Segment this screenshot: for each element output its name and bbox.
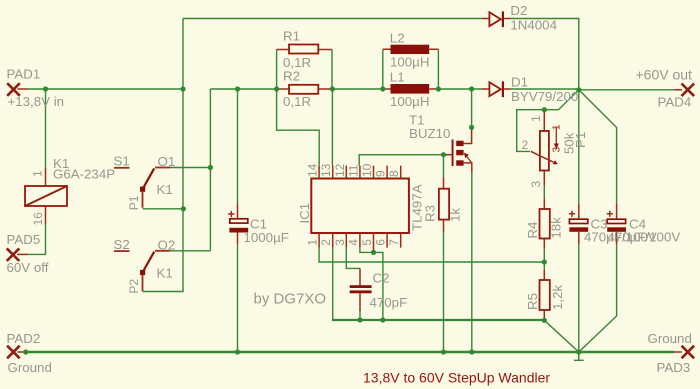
svg-text:4: 4 (346, 239, 360, 246)
wire R1 parallel branch risers (277, 50, 332, 90)
svg-text:S1: S1 (114, 154, 130, 169)
resistor R3 body (439, 189, 449, 220)
IC1 top pin stubs 14-8 (319, 166, 401, 179)
wire IC1 pins 4/5 tie down to ground line (360, 248, 383, 320)
wire T1 source to ground rail (471, 172, 473, 352)
resistor R5 body (540, 280, 550, 310)
switch S1 lever (143, 168, 155, 189)
pad PAD1 cross (7, 83, 20, 96)
potentiometer P1 body (540, 131, 549, 171)
node PAD2 ground rail junction (23, 349, 28, 354)
capacitor C3 bottom plate (569, 227, 588, 232)
node C2 bottom junction (357, 317, 362, 322)
diode D2 triangle (489, 12, 500, 26)
node C1 ground junction (235, 349, 240, 354)
svg-text:3: 3 (333, 239, 347, 246)
ground symbol (574, 352, 584, 360)
wire IC1 pin14 sense jog (277, 89, 320, 166)
wire feedback IC1 pin1 to R4/R5 node (319, 248, 544, 262)
node O1 contact junction (208, 165, 213, 170)
switch S1 pole pin P1 (142, 191, 144, 208)
node L1/L2 left junction (380, 86, 385, 91)
resistor R4 body (540, 209, 550, 239)
svg-text:PAD1: PAD1 (7, 67, 41, 82)
capacitor C1 plus sign (228, 211, 234, 217)
inductor L2 body (391, 45, 430, 54)
svg-text:12: 12 (333, 163, 347, 177)
pad PAD1 pin stub (18, 88, 28, 90)
pad PAD4 cross (682, 84, 695, 97)
wire C2 bottom (359, 309, 361, 320)
pad PAD5 pin stub (17, 253, 28, 255)
op-amp IC1 box TL497A (311, 179, 409, 234)
svg-text:2: 2 (319, 239, 333, 246)
svg-text:13,8V to 60V StepUp Wandler: 13,8V to 60V StepUp Wandler (363, 370, 550, 386)
node R3 ground junction (441, 349, 446, 354)
diode D1 triangle (489, 82, 500, 96)
svg-text:PAD4: PAD4 (658, 95, 692, 110)
svg-text:R5: R5 (525, 293, 540, 310)
diode D2 cathode bar (502, 11, 504, 27)
svg-text:R2: R2 (283, 69, 300, 84)
resistor R1 body (289, 45, 318, 54)
pad PAD5 cross (7, 248, 20, 261)
svg-text:10: 10 (360, 163, 374, 177)
wire IC1 pin13 supply drop (331, 89, 333, 166)
inductor L2 pins (383, 48, 439, 50)
wire vertical bus x=183 from top wire through +13,8V rail down to P2 (143, 19, 184, 292)
svg-text:C2: C2 (373, 271, 390, 286)
svg-text:PAD5: PAD5 (7, 232, 41, 247)
switch S1 NC stub (114, 167, 130, 169)
svg-text:1N4004: 1N4004 (510, 18, 557, 33)
svg-text:14: 14 (306, 163, 320, 177)
resistor R2 body (289, 85, 318, 94)
svg-text:+13,8V in: +13,8V in (8, 94, 65, 109)
relay K1 coil diagonal (25, 186, 67, 206)
svg-text:16: 16 (31, 212, 45, 226)
svg-text:0,1R: 0,1R (283, 94, 311, 109)
svg-text:60V off: 60V off (7, 260, 49, 275)
svg-text:470µF/100V: 470µF/100V (608, 230, 681, 245)
svg-text:100µH: 100µH (390, 55, 429, 70)
resistor R3 pins (443, 177, 445, 232)
svg-text:G6A-234P: G6A-234P (53, 167, 115, 182)
svg-text:1: 1 (31, 170, 45, 177)
svg-text:2: 2 (522, 138, 529, 152)
capacitor C4 top plate (607, 219, 625, 223)
capacitor C3 top plate (569, 219, 587, 223)
switch S2 lever (143, 252, 155, 273)
wire switched +13,8V rail y=89 (210, 88, 578, 90)
wire P1 pot top loop and wiper (517, 90, 579, 152)
svg-text:3: 3 (551, 147, 562, 153)
IC1 bottom pin stubs 1-7 (319, 233, 401, 252)
svg-text:P1: P1 (573, 132, 588, 148)
wire R4 bottom to feedback node to R5 top (543, 249, 545, 271)
svg-text:BYV79/200: BYV79/200 (511, 89, 578, 104)
switch S2 NO stub O2 (155, 250, 170, 252)
node P1 pot top junction (542, 107, 547, 112)
svg-text:S2: S2 (114, 237, 130, 252)
svg-text:O2: O2 (158, 238, 176, 253)
svg-text:IC1: IC1 (297, 203, 312, 224)
svg-text:K1: K1 (157, 182, 173, 197)
svg-text:100µH: 100µH (390, 94, 429, 109)
potentiometer P1 pins (543, 111, 545, 186)
transistor T1 channel bars (456, 141, 463, 146)
wire T1 drain riser (471, 89, 473, 127)
inductor L1 pins (383, 88, 439, 90)
wire gate net pin11 to T1 gate and R3 (359, 155, 445, 177)
svg-text:18k: 18k (549, 217, 564, 239)
svg-text:7: 7 (387, 239, 401, 246)
node gate/R3 junction (441, 152, 446, 157)
capacitor C3 pins (578, 204, 580, 244)
svg-text:1: 1 (529, 115, 543, 122)
wire O1 contact to x210 bus (170, 167, 210, 169)
svg-text:5: 5 (360, 239, 374, 246)
potentiometer P1 direction arrow (555, 127, 557, 145)
svg-text:470pF: 470pF (370, 295, 408, 310)
relay K1 coil body (25, 186, 67, 206)
diode D1 cathode bar (502, 81, 504, 97)
wire D2 cathode to +60V junction (511, 19, 579, 90)
node main ground junction (576, 349, 581, 354)
transistor T1 drain connection (463, 128, 471, 144)
capacitor C4 plus sign (607, 211, 613, 217)
node P1 pole junction (181, 206, 186, 211)
node IC1 pin4/5 junction (371, 250, 376, 255)
svg-text:6: 6 (374, 239, 388, 246)
node R5 bottom junction (542, 318, 547, 323)
svg-text:O1: O1 (158, 154, 176, 169)
wire relay coil top drop (45, 89, 47, 168)
transistor T1 source connection (463, 163, 471, 172)
svg-text:8: 8 (387, 170, 401, 177)
switch S2 pole pin P2 (142, 274, 144, 291)
switch S1 pivot (140, 187, 145, 192)
node C1 tap on switched rail (235, 86, 240, 91)
relay K1 coil pins (45, 168, 47, 224)
wire O2 contact to x210 bus (170, 250, 210, 252)
pad PAD3 pin stub (674, 351, 682, 353)
wire IC1 pin2 ground line to R5 bottom (332, 248, 334, 320)
pad PAD3 cross (682, 346, 695, 359)
svg-text:L2: L2 (390, 31, 405, 46)
capacitor C3 plus sign (569, 211, 575, 217)
node feedback R4/R5 junction (542, 259, 547, 264)
svg-text:1: 1 (306, 239, 320, 246)
wire R3 bottom to ground rail (443, 232, 445, 352)
svg-text:1000µF: 1000µF (244, 230, 289, 245)
svg-text:1k: 1k (448, 208, 463, 222)
wire R5 bottom diagonal to ground node (544, 320, 579, 352)
pad PAD2 cross (7, 346, 20, 359)
wire IC1 pin3 to C2 top (346, 248, 360, 269)
node R1/R2 left junction (274, 86, 279, 91)
wire C4 bottom diagonal to ground node (579, 244, 617, 352)
capacitor C2 plates (350, 285, 372, 288)
svg-text:R1: R1 (283, 29, 300, 44)
svg-text:3: 3 (529, 181, 543, 188)
wire top net from node at x183 to D2 anode (183, 18, 482, 20)
wire ground rail bottom (26, 351, 675, 354)
wire C4 diagonal top riser (579, 90, 617, 204)
switch S1 NO stub O1 (155, 167, 170, 169)
potentiometer P1 wiper arrow (531, 151, 554, 162)
capacitor C4 pins (616, 204, 618, 244)
switch S2 NC stub (114, 250, 130, 252)
svg-text:PAD3: PAD3 (657, 360, 691, 375)
svg-text:D2: D2 (510, 3, 527, 18)
node pin4/5 ground junction (380, 317, 385, 322)
svg-text:13: 13 (319, 163, 333, 177)
node L1/L2 right junction (436, 86, 441, 91)
node +13,8V rail / vertical bus junction (180, 86, 185, 91)
svg-text:by DG7XO: by DG7XO (254, 291, 327, 308)
transistor T1 gate bar (452, 140, 454, 167)
svg-text:Ground: Ground (8, 360, 52, 375)
wire C3 bottom to ground node (578, 244, 580, 352)
IC1 pin number labels (306, 163, 402, 245)
svg-text:L1: L1 (390, 70, 405, 85)
capacitor C4 bottom plate (607, 227, 626, 232)
resistor R1 pins (277, 49, 332, 51)
svg-text:P2: P2 (127, 279, 141, 294)
wire L2 parallel branch risers (383, 49, 439, 89)
svg-text:R4: R4 (525, 222, 540, 239)
resistor R5 pins (543, 270, 545, 320)
node T1 source ground junction (469, 349, 474, 354)
capacitor C1 top plate (230, 219, 248, 223)
node T1 drain wire junction (469, 125, 474, 130)
resistor R2 pins (277, 88, 332, 90)
svg-text:+60V out: +60V out (636, 67, 693, 83)
wire C1 bottom to ground rail (237, 244, 239, 352)
node relay coil tap on +13,8V rail (43, 86, 48, 91)
node R1/R2 right junction (330, 86, 335, 91)
capacitor C1 bottom plate (229, 228, 248, 233)
diode D2 pins (482, 18, 511, 20)
svg-text:D1: D1 (511, 75, 528, 90)
svg-text:1,2k: 1,2k (550, 285, 565, 310)
svg-text:11: 11 (346, 164, 360, 177)
wire +13,8V rail from PAD1 to x183 (28, 88, 184, 90)
wire +60V rail to PAD4 (579, 89, 674, 91)
diode D1 pins (482, 88, 511, 90)
transistor T1 body arrow (467, 157, 472, 164)
node +60V junction (576, 87, 581, 92)
wire pot pin3 to R4 (543, 185, 545, 199)
wire C1 top riser (237, 89, 239, 204)
inductor L1 body (391, 84, 430, 94)
svg-text:P1: P1 (127, 195, 141, 210)
svg-text:PAD2: PAD2 (7, 331, 41, 346)
resistor R4 pins (543, 199, 545, 249)
svg-text:BUZ10: BUZ10 (409, 126, 450, 141)
switch S2 pivot (140, 270, 145, 275)
capacitor C1 pins (237, 204, 239, 245)
wire switched rail bus x=210 (209, 89, 211, 251)
wire P1 pole to x183 bus (143, 208, 184, 210)
wire relay coil bottom to PAD5 (28, 224, 46, 254)
svg-text:9: 9 (374, 170, 388, 177)
pad PAD4 pin stub (674, 89, 682, 91)
wire C3 top riser (578, 90, 580, 204)
transistor Q1 T1 gate pin (445, 154, 452, 156)
svg-text:1: 1 (552, 124, 563, 130)
svg-text:Ground: Ground (648, 331, 692, 346)
node T1 drain tap on rail (469, 86, 474, 91)
svg-text:R3: R3 (423, 205, 438, 222)
pad PAD2 pin stub (18, 351, 26, 353)
svg-text:K1: K1 (157, 266, 173, 281)
capacitor C2 pins (359, 268, 361, 311)
